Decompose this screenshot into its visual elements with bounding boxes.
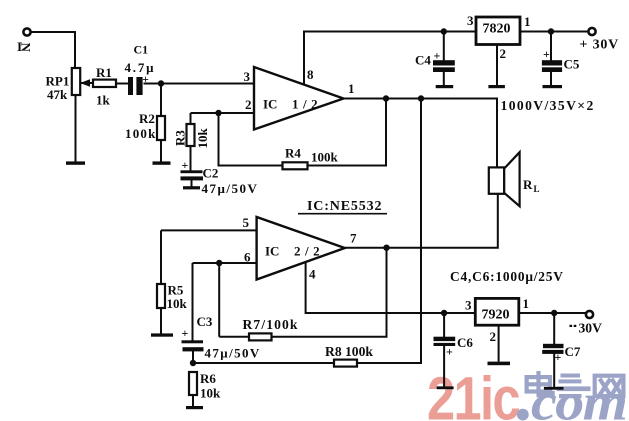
svg-text:+: + — [434, 49, 441, 63]
svg-text:R4: R4 — [285, 146, 301, 161]
svg-text:7920: 7920 — [482, 308, 510, 323]
svg-text:R1: R1 — [96, 65, 112, 80]
svg-text:R6: R6 — [200, 371, 216, 386]
svg-text:10k: 10k — [200, 386, 221, 401]
svg-text:+: + — [182, 326, 189, 340]
svg-text:IC: IC — [263, 97, 277, 112]
svg-text:L: L — [534, 184, 540, 194]
svg-text:C2: C2 — [203, 166, 219, 181]
svg-text:100k: 100k — [311, 150, 339, 165]
svg-text:R3: R3 — [173, 130, 188, 146]
svg-text:C4,C6:1000μ/25V: C4,C6:1000μ/25V — [450, 269, 564, 284]
svg-text:2: 2 — [245, 97, 252, 112]
svg-text:47k: 47k — [47, 87, 68, 102]
svg-text:R: R — [523, 177, 533, 192]
svg-text:IC:NE5532: IC:NE5532 — [307, 199, 382, 214]
svg-text:10k: 10k — [195, 128, 210, 149]
svg-text:21ic: 21ic — [427, 364, 519, 421]
svg-text:4.7μ: 4.7μ — [125, 60, 156, 75]
svg-text:1/2: 1/2 — [292, 97, 322, 112]
svg-text:+: + — [446, 345, 453, 359]
svg-text:IC: IC — [265, 244, 279, 259]
svg-text:3: 3 — [467, 13, 474, 28]
svg-text:C3: C3 — [197, 314, 213, 329]
svg-text:47μ/50V: 47μ/50V — [202, 181, 259, 196]
svg-text:7820: 7820 — [483, 22, 511, 37]
svg-text:6: 6 — [244, 250, 251, 265]
svg-text:1: 1 — [524, 14, 531, 29]
svg-text:C6: C6 — [457, 335, 473, 350]
svg-text:+: + — [182, 158, 189, 172]
svg-text:3: 3 — [465, 298, 472, 313]
svg-text:2/2: 2/2 — [294, 244, 324, 259]
svg-text:8: 8 — [307, 67, 314, 82]
svg-text:1: 1 — [348, 81, 355, 96]
svg-text:+: + — [555, 350, 562, 364]
svg-text:5: 5 — [243, 215, 250, 230]
svg-text:1: 1 — [523, 296, 530, 311]
svg-text:10k: 10k — [167, 296, 188, 311]
svg-text:C4: C4 — [415, 53, 431, 68]
svg-text:1k: 1k — [96, 93, 111, 108]
svg-text:R8 100k: R8 100k — [325, 344, 373, 359]
svg-text:100k: 100k — [125, 126, 157, 141]
svg-text:+: + — [543, 47, 550, 61]
svg-text:R2: R2 — [139, 111, 155, 126]
svg-text:C5: C5 — [564, 57, 580, 72]
svg-text:+ 30V: + 30V — [580, 38, 620, 53]
svg-text:N: N — [19, 43, 34, 53]
svg-text:+: + — [142, 74, 149, 86]
svg-text:7: 7 — [350, 231, 357, 246]
svg-text:C7: C7 — [565, 344, 581, 359]
svg-text:30V: 30V — [579, 321, 603, 336]
svg-text:47μ/50V: 47μ/50V — [205, 346, 261, 361]
svg-text:2: 2 — [490, 329, 497, 344]
svg-text:2: 2 — [500, 46, 507, 61]
svg-text:C1: C1 — [134, 43, 149, 57]
svg-text:3: 3 — [244, 69, 251, 84]
svg-text:R7/100k: R7/100k — [243, 317, 299, 332]
svg-text:1000V/35V×2: 1000V/35V×2 — [501, 98, 595, 113]
svg-text:4: 4 — [309, 267, 316, 282]
